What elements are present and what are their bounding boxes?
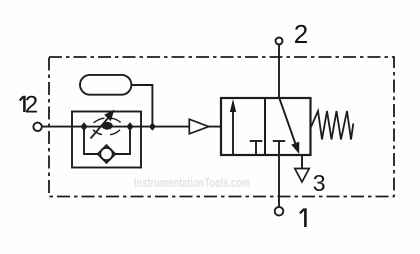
wire: port 1 line <box>278 155 280 207</box>
left cell blocked port T <box>255 141 257 155</box>
pilot signal triangle <box>189 119 209 134</box>
junction dot A (bypass left) <box>80 122 87 131</box>
svg-text:2: 2 <box>25 91 38 118</box>
label 1 <box>304 208 307 227</box>
wire: main pilot supply line from port 12 to valve <box>42 126 221 128</box>
check valve ball <box>100 148 112 160</box>
wire: bypass branch right <box>116 127 131 154</box>
valve body 3/2 <box>221 98 311 155</box>
exhaust triangle port 3 <box>295 169 309 183</box>
port 2 circle <box>276 38 283 45</box>
svg-text:3: 3 <box>313 170 326 196</box>
wire: pill to main line <box>131 85 152 127</box>
throttle top arc <box>94 118 105 123</box>
port 12 circle <box>33 123 41 131</box>
right cell blocked port T <box>278 141 280 155</box>
flow-control box enclosure <box>72 112 141 168</box>
wire: port 3 exhaust line <box>301 155 303 169</box>
right cell flow diagonal (2 to 3) <box>279 98 295 144</box>
throttle bottom arc <box>93 130 102 135</box>
throttle adjustment arrow <box>91 118 109 139</box>
valve divider <box>264 98 266 155</box>
check valve seat diamond <box>98 145 116 163</box>
spring <box>311 111 353 140</box>
svg-text:2: 2 <box>294 19 308 49</box>
pilot reservoir pill <box>80 75 131 95</box>
enclosure dash-dot border <box>49 57 394 197</box>
wire: bypass branch left <box>84 127 98 154</box>
label 12 <box>23 96 26 112</box>
junction dot C (pill branch) <box>149 122 156 130</box>
wire: port 2 line <box>278 44 280 98</box>
svg-text:InstrumentationTools.com: InstrumentationTools.com <box>134 176 250 190</box>
left cell flow arrow (1 to 2) <box>232 110 234 155</box>
port 1 circle <box>275 207 284 216</box>
junction dot B (bypass right) <box>126 122 133 131</box>
